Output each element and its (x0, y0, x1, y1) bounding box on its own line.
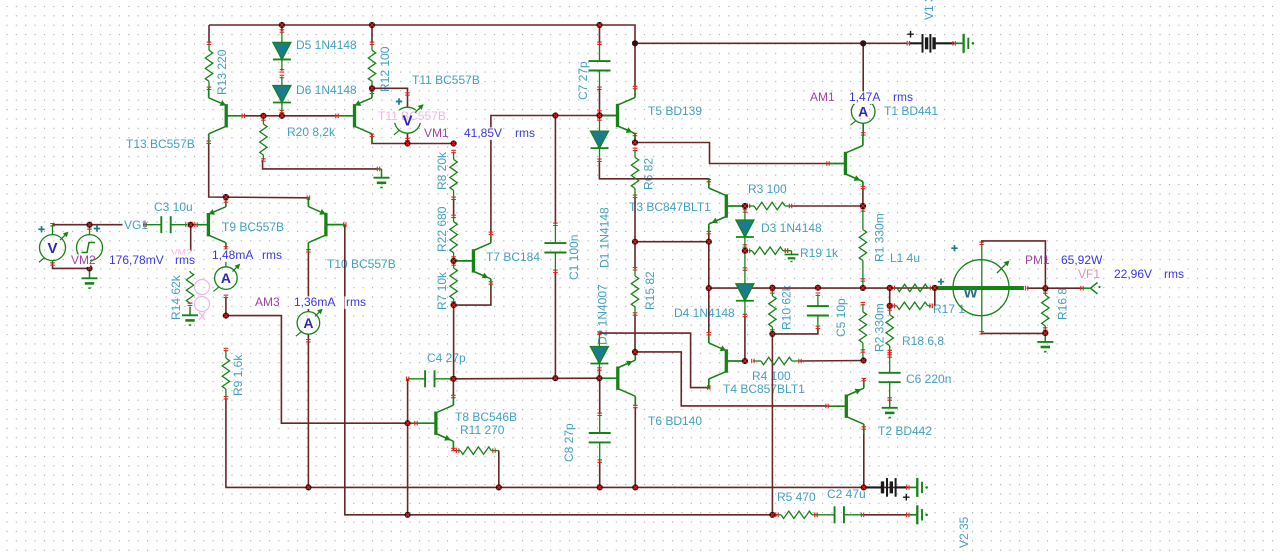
svg-text:1,36mA: 1,36mA (294, 295, 335, 309)
svg-text:1,48mA: 1,48mA (212, 248, 253, 262)
svg-text:R19 1k: R19 1k (800, 246, 839, 260)
svg-text:176,78mV: 176,78mV (109, 253, 164, 267)
svg-text:R1 330m: R1 330m (873, 213, 887, 262)
svg-text:T7 BC184: T7 BC184 (486, 250, 540, 264)
svg-text:A: A (221, 270, 231, 286)
svg-text:C4 27p: C4 27p (427, 351, 466, 365)
svg-text:rms: rms (346, 295, 366, 309)
svg-text:A: A (858, 103, 868, 119)
svg-text:C2 47u: C2 47u (827, 487, 866, 501)
svg-text:rms: rms (175, 253, 195, 267)
svg-text:D5 1N4148: D5 1N4148 (296, 38, 357, 52)
svg-text:+: + (903, 490, 911, 505)
svg-text:L1 4u: L1 4u (890, 251, 920, 265)
svg-text:C5 10p: C5 10p (834, 298, 848, 337)
svg-text:T9 BC557B: T9 BC557B (222, 220, 284, 234)
svg-text:T2 BD442: T2 BD442 (878, 424, 932, 438)
svg-text:T4 BC857BLT1: T4 BC857BLT1 (723, 382, 805, 396)
svg-text:A: A (303, 315, 313, 331)
svg-text:R4 100: R4 100 (752, 369, 791, 383)
svg-text:T5 BD139: T5 BD139 (648, 104, 702, 118)
svg-text:VM2: VM2 (71, 253, 96, 267)
svg-text:R8 20k: R8 20k (435, 151, 449, 190)
svg-text:R11 270: R11 270 (460, 423, 505, 437)
svg-text:R15 82: R15 82 (643, 271, 657, 310)
svg-text:C3 10u: C3 10u (154, 200, 193, 214)
svg-text:R22 680: R22 680 (435, 206, 449, 252)
svg-text:D2 1N4007: D2 1N4007 (596, 284, 610, 345)
svg-text:VF1: VF1 (1078, 267, 1100, 281)
svg-text:V: V (402, 113, 412, 130)
svg-text:1,47A: 1,47A (849, 90, 880, 104)
svg-text:T11 BC557B: T11 BC557B (412, 73, 480, 87)
svg-text:R9 1,6k: R9 1,6k (231, 354, 245, 396)
svg-text:V1 35: V1 35 (922, 0, 936, 20)
svg-text:C7 27p: C7 27p (576, 61, 590, 100)
svg-text:R18 6,8: R18 6,8 (902, 334, 944, 348)
svg-text:V: V (47, 240, 57, 257)
svg-text:V2 35: V2 35 (957, 516, 971, 548)
svg-text:R3 100: R3 100 (748, 182, 787, 196)
svg-text:R13 220: R13 220 (215, 49, 229, 95)
svg-text:R2 330m: R2 330m (873, 303, 887, 352)
svg-text:C8 27p: C8 27p (562, 423, 576, 462)
svg-text:C6 220n: C6 220n (906, 372, 951, 386)
svg-text:D6 1N4148: D6 1N4148 (296, 83, 357, 97)
svg-text:T6 BD140: T6 BD140 (648, 414, 702, 428)
svg-text:R17 1: R17 1 (933, 302, 965, 316)
svg-text:rms: rms (515, 126, 535, 140)
svg-text:T10 BC557B: T10 BC557B (327, 257, 396, 271)
svg-text:VG1: VG1 (124, 218, 148, 232)
svg-text:rms: rms (893, 90, 913, 104)
svg-text:R6 82: R6 82 (642, 158, 656, 190)
svg-text:D4 1N4148: D4 1N4148 (674, 306, 735, 320)
svg-text:rms: rms (1164, 267, 1184, 281)
svg-text:PM1: PM1 (1025, 253, 1050, 267)
svg-text:D3 1N4148: D3 1N4148 (761, 221, 822, 235)
svg-text:22,96V: 22,96V (1114, 267, 1152, 281)
svg-text:W: W (964, 285, 979, 302)
svg-text:T3 BC847BLT1: T3 BC847BLT1 (629, 200, 711, 214)
svg-text:VM1: VM1 (424, 126, 449, 140)
svg-text:AM3: AM3 (255, 295, 280, 309)
svg-text:C1 100n: C1 100n (567, 235, 581, 280)
svg-text:T13 BC557B: T13 BC557B (126, 137, 195, 151)
svg-text:65,92W: 65,92W (1061, 253, 1103, 267)
svg-text:R10 62k: R10 62k (780, 284, 794, 330)
svg-text:41,85V: 41,85V (464, 126, 502, 140)
svg-text:R16 8: R16 8 (1056, 288, 1070, 320)
svg-text:R7 10k: R7 10k (435, 271, 449, 310)
svg-text:T1 BD441: T1 BD441 (884, 104, 938, 118)
svg-text:R20 8,2k: R20 8,2k (287, 125, 336, 139)
svg-text:R12 100: R12 100 (378, 46, 392, 92)
svg-text:D1 1N4148: D1 1N4148 (598, 207, 612, 268)
svg-text:R14 62k: R14 62k (169, 274, 183, 320)
svg-text:rms: rms (262, 248, 282, 262)
svg-text:AM1: AM1 (810, 90, 835, 104)
svg-text:R5 470: R5 470 (777, 490, 816, 504)
svg-text:T8 BC546B: T8 BC546B (455, 410, 517, 424)
svg-text:+: + (907, 27, 915, 42)
